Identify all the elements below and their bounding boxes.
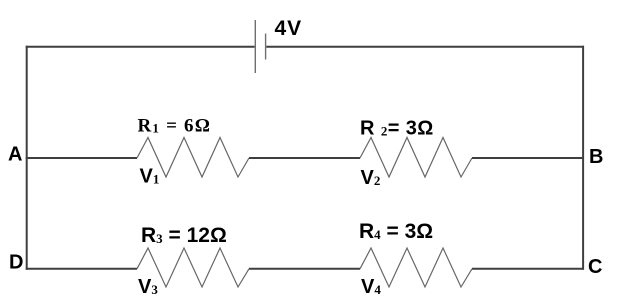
wire R3 to R4 xyxy=(249,268,360,270)
battery B1 short plate xyxy=(265,34,267,60)
svg-text:V1: V1 xyxy=(140,166,160,188)
resistor R4 zigzag xyxy=(360,248,472,287)
svg-text:V2: V2 xyxy=(361,167,381,189)
wire top-right horizontal xyxy=(266,46,584,48)
svg-text:V3: V3 xyxy=(138,276,158,298)
wire right vertical xyxy=(582,46,584,270)
svg-text:R4 = 3Ω: R4 = 3Ω xyxy=(359,220,433,243)
svg-text:R3 = 12Ω: R3 = 12Ω xyxy=(141,224,227,247)
wire top-left horizontal xyxy=(26,46,255,48)
svg-text:R 2= 3Ω: R 2= 3Ω xyxy=(360,118,434,140)
resistor R3 zigzag xyxy=(137,248,249,287)
wire R4 to C xyxy=(472,268,584,270)
svg-text:R1 = 6Ω: R1 = 6Ω xyxy=(138,116,212,137)
svg-text:A: A xyxy=(8,144,22,166)
svg-text:C: C xyxy=(588,256,602,278)
battery B1 long plate xyxy=(254,20,256,73)
wire left vertical xyxy=(26,46,28,270)
svg-text:B: B xyxy=(589,146,603,168)
resistor R1 zigzag xyxy=(137,138,249,178)
svg-text:D: D xyxy=(9,252,23,274)
wire R1 to R2 xyxy=(249,157,360,159)
wire D to R3 xyxy=(26,268,137,270)
svg-text:V4: V4 xyxy=(361,276,381,298)
wire R2 to B xyxy=(472,157,584,159)
svg-text:4V: 4V xyxy=(275,17,303,40)
wire A to R1 xyxy=(26,157,137,159)
resistor R2 zigzag xyxy=(360,138,472,178)
